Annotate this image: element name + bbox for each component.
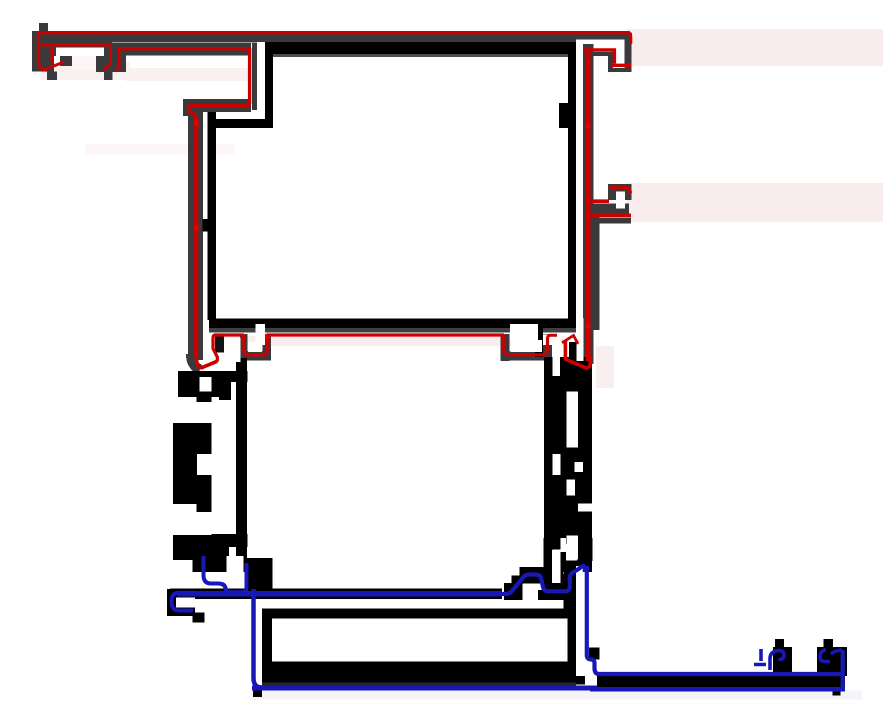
bottom-right notch white xyxy=(566,544,577,561)
slit left of glazing panel left border xyxy=(203,128,208,219)
head frame slot tab left xyxy=(47,72,57,81)
bottom bar notch on descender xyxy=(589,648,600,660)
pink glow under mid red line xyxy=(212,336,564,346)
hook1 slot white xyxy=(616,52,624,65)
long mid red line main segment xyxy=(267,333,504,336)
sash ladder blob C xyxy=(173,535,229,560)
right foot left block xyxy=(535,325,543,357)
bottom bar right portion xyxy=(597,676,845,687)
left jamb arm xyxy=(194,117,198,355)
lavender fade under bottom edge xyxy=(250,691,862,700)
left foot curve xyxy=(196,353,217,368)
glazing panel notch horizontal bar xyxy=(208,119,274,128)
bottom-right hump path xyxy=(495,566,585,594)
ladder blob A hole xyxy=(200,377,212,392)
sash ladder blob A xyxy=(178,371,221,397)
inner red over T-slot xyxy=(42,44,110,47)
sill web blue core xyxy=(177,591,502,597)
head frame T-slot wall block xyxy=(48,43,115,56)
sill top border xyxy=(262,609,572,619)
dip2 interior xyxy=(511,340,542,352)
junction dot jamb mid xyxy=(194,225,199,230)
T-slot right wall xyxy=(104,45,111,71)
right mullion hook2 mid band xyxy=(584,203,629,213)
head frame right vertical of lip xyxy=(248,48,251,104)
sash ladder bridge top xyxy=(212,371,248,382)
bottom-left slot xyxy=(227,556,244,584)
faint band left xyxy=(85,144,235,155)
right mullion hook2 block xyxy=(608,184,632,200)
bottom web line black edges xyxy=(170,589,502,600)
bottom-right slot xyxy=(552,550,561,583)
mullion hook2 xyxy=(586,199,609,203)
sash ladder bridge bottom xyxy=(212,534,248,547)
elbow to jamb arm xyxy=(190,104,251,107)
junction dot mullion lower xyxy=(585,323,590,328)
junction dot dip1 xyxy=(265,333,271,339)
right mullion top-right edge block xyxy=(624,35,631,72)
sill left descender xyxy=(254,589,263,688)
bottom-left junction tab xyxy=(193,613,205,623)
bottom-right junction stair steps xyxy=(504,583,523,600)
right foot lower mass xyxy=(544,360,592,407)
right foot tooth xyxy=(569,342,577,375)
bottom-left U under slot xyxy=(226,563,247,592)
dip2 xyxy=(504,335,548,355)
right end hook2 tab xyxy=(824,639,834,649)
right end hook1 block xyxy=(773,647,792,676)
sash ladder blob B xyxy=(173,423,212,504)
head frame top outline xyxy=(39,33,47,71)
right end bottom tab xyxy=(833,687,841,696)
mullion hook1 xyxy=(584,50,614,64)
head frame left end block xyxy=(32,31,54,72)
sash ladder tab A xyxy=(197,396,212,402)
head frame lip inner line xyxy=(118,47,249,50)
head frame left jamb arm casing xyxy=(188,108,203,360)
glazing panel left border xyxy=(208,112,217,320)
bottom-left curl hole xyxy=(176,598,195,608)
right foot leg xyxy=(565,341,586,368)
right end blue down edge xyxy=(841,650,845,689)
slit along sill right border xyxy=(576,566,584,659)
highlight pocket under top-left channel xyxy=(40,62,130,80)
sash right mass cutouts xyxy=(567,392,579,448)
right mullion main vertical xyxy=(586,49,591,361)
sill bottom border xyxy=(262,662,576,683)
right foot throat xyxy=(553,345,561,376)
sill bottom blue edge xyxy=(252,686,597,691)
glazing panel bottom border xyxy=(208,319,577,329)
head frame slot tab right xyxy=(104,72,113,80)
left foot curve casing xyxy=(191,354,200,370)
ladder blob B notch xyxy=(197,454,212,475)
long mid red line left segment xyxy=(215,333,244,336)
highlight band mid right xyxy=(627,183,883,222)
T-slot left hook xyxy=(42,62,64,71)
short segment after dip2 xyxy=(548,335,558,338)
glazing panel right nub xyxy=(559,103,568,128)
slit over dip2 xyxy=(510,324,538,341)
sill right border xyxy=(568,609,577,668)
right mullion hook1 casing xyxy=(592,52,613,56)
white slot left of dip1 xyxy=(225,338,241,362)
mid junction dip2 leg casings xyxy=(501,334,510,361)
sash top-left tooth xyxy=(219,374,231,400)
dip1 interior xyxy=(248,342,262,352)
sill bottom tab left xyxy=(253,690,262,697)
head frame right mullion casing xyxy=(583,44,594,364)
glazing panel top border xyxy=(265,42,571,54)
right mullion lower arm right casing xyxy=(592,214,600,330)
junction dot jamb upper xyxy=(194,120,199,125)
faint pink column right of right foot xyxy=(596,346,614,388)
head frame lower lip bar xyxy=(111,43,251,56)
right foot curve into mullion xyxy=(586,356,591,368)
glazing panel right border xyxy=(568,42,576,322)
bottom-left junction blob xyxy=(167,589,195,616)
sill right descender xyxy=(587,566,843,674)
right end hook1 tab xyxy=(775,639,784,649)
bottom-right slot column xyxy=(544,538,564,574)
bottom-left junction upper block xyxy=(193,558,227,572)
right foot T-slot wide xyxy=(543,335,562,346)
head frame elbow casing xyxy=(183,99,251,112)
hook2 slot white xyxy=(616,192,625,209)
sash left border column xyxy=(236,358,247,572)
right mullion hook2 lower band xyxy=(591,218,632,224)
sash right mass xyxy=(544,357,592,572)
slit between head frame and glazing panel top xyxy=(257,42,265,110)
slit glazing bottom bar left end xyxy=(204,320,209,361)
bottom-right top mass xyxy=(564,538,593,561)
sill left border xyxy=(262,609,272,684)
dip1 xyxy=(244,335,267,355)
glazing panel left nub xyxy=(203,219,212,232)
slit over dip1 xyxy=(256,324,266,345)
mid junction dip1 leg casings xyxy=(240,334,248,359)
bottom-left junction right L block xyxy=(245,558,273,589)
sash ladder tab B xyxy=(197,504,212,512)
head frame right-of-vertical casing xyxy=(252,43,257,110)
T-slot wide opening xyxy=(56,48,104,57)
highlight band upper right xyxy=(627,29,883,66)
right foot mass notch xyxy=(568,392,576,401)
sill bottom border fade xyxy=(262,683,576,686)
mullion hook2 lower line xyxy=(585,214,631,218)
glazing panel notch vertical bar xyxy=(265,42,273,119)
head frame top tab xyxy=(39,23,48,32)
right foot caret xyxy=(562,336,578,344)
slit right of glazing right border xyxy=(577,318,584,361)
sill interior xyxy=(272,619,568,662)
head frame top bar casing xyxy=(32,31,576,43)
right end hook2 block xyxy=(817,647,847,676)
sill bottom black extension right xyxy=(576,676,585,685)
junction dot mullion upper xyxy=(585,123,590,128)
T-slot throat xyxy=(72,56,96,71)
left foot hook up xyxy=(213,335,217,362)
bottom-right wall under mass xyxy=(564,561,577,609)
bottom-right top slit xyxy=(561,538,567,552)
right hook2 blue xyxy=(820,650,842,662)
mid junction left tooth xyxy=(215,336,224,353)
bottom-left junction snake vertical xyxy=(204,556,226,589)
bottom-left curl xyxy=(172,593,196,611)
right hook1 blue xyxy=(754,649,784,670)
